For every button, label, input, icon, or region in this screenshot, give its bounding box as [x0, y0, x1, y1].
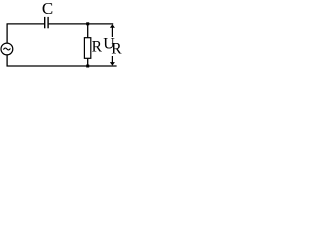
wire resistor bottom lead	[87, 59, 89, 67]
voltage label U_R	[103, 36, 122, 58]
svg-text:C: C	[42, 0, 53, 18]
svg-text:R: R	[111, 41, 122, 58]
ac source V1	[1, 43, 13, 55]
junction node bottom	[86, 65, 89, 68]
voltage arrow UR lower (points down to bottom wire)	[110, 56, 115, 66]
capacitor C	[45, 17, 48, 28]
voltage arrow UR upper (points up to top wire)	[110, 24, 115, 37]
junction node top	[86, 22, 89, 25]
wire resistor top lead	[87, 24, 89, 38]
resistor R	[84, 38, 90, 59]
svg-text:R: R	[92, 39, 103, 56]
wire top right segment	[49, 23, 114, 25]
wire bottom segment	[7, 65, 117, 67]
wire top left segment	[7, 23, 45, 25]
wire left lower	[6, 55, 8, 67]
wire left upper	[6, 24, 8, 43]
